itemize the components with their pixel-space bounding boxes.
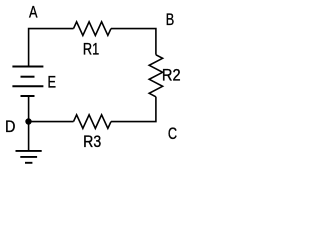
node D junction dot bbox=[25, 118, 31, 124]
resistor value label R3 bbox=[83, 133, 101, 151]
resistor R2 bbox=[149, 55, 162, 97]
resistor R3 bbox=[74, 115, 112, 129]
wire: bottom wire from R3 to node D bbox=[29, 121, 74, 123]
svg-text:D: D bbox=[5, 118, 15, 136]
battery value label E bbox=[48, 73, 56, 92]
svg-text:R1: R1 bbox=[83, 40, 99, 59]
resistor R1 bbox=[74, 22, 112, 36]
resistor value label R1 bbox=[83, 40, 99, 59]
node D label bbox=[5, 118, 15, 136]
resistor value label R2 bbox=[162, 67, 181, 85]
svg-text:A: A bbox=[29, 3, 37, 22]
wire: battery bottom stub down through node D to ground bbox=[28, 96, 30, 150]
ground bbox=[16, 150, 42, 152]
wire: right rail from R2 down to corner C, then bottom wire to R3 bbox=[111, 97, 156, 122]
battery E plates bbox=[12, 66, 43, 68]
svg-text:B: B bbox=[166, 10, 174, 29]
node C label bbox=[168, 124, 177, 143]
svg-text:E: E bbox=[48, 73, 56, 92]
svg-text:R2: R2 bbox=[162, 67, 181, 85]
node B label bbox=[166, 10, 174, 29]
svg-text:R3: R3 bbox=[83, 133, 101, 151]
svg-text:C: C bbox=[168, 124, 177, 143]
node A label bbox=[29, 3, 37, 22]
wire: top wire from R1 to corner B, then right rail down to R2 bbox=[111, 29, 156, 55]
wire: left rail from battery top plate up to corner A, then top wire to R1 bbox=[29, 29, 74, 67]
